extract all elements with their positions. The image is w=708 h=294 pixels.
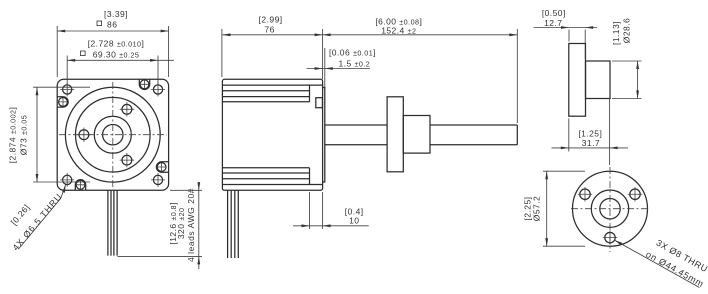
svg-text:86: 86 [107,20,117,30]
svg-text:Ø28.6: Ø28.6 [622,18,632,43]
svg-text:Ø57.2: Ø57.2 [532,196,542,221]
svg-text:69.30 ±0.25: 69.30 ±0.25 [93,50,140,60]
svg-text:[2.728 ±0.010]: [2.728 ±0.010] [88,39,145,49]
svg-text:Ø73 ±0.05: Ø73 ±0.05 [19,115,29,155]
svg-text:320 ±20: 320 ±20 [176,207,186,239]
svg-text:[0.06 ±0.01]: [0.06 ±0.01] [329,48,376,58]
svg-text:76: 76 [264,25,274,35]
svg-text:1.5 ±0.2: 1.5 ±0.2 [339,59,371,69]
svg-text:[1.13]: [1.13] [611,21,621,45]
svg-text:[3.39]: [3.39] [104,9,128,19]
svg-text:[2.99]: [2.99] [259,15,283,25]
svg-text:[0.50]: [0.50] [542,8,566,18]
svg-text:12.7: 12.7 [544,18,562,28]
svg-text:31.7: 31.7 [582,138,600,148]
svg-text:10: 10 [349,215,359,225]
svg-text:152.4 ±2: 152.4 ±2 [381,26,416,36]
svg-text:4 leads AWG 20#: 4 leads AWG 20# [186,188,196,262]
svg-text:[2.874 ±0.002]: [2.874 ±0.002] [7,107,17,164]
svg-text:[1.25]: [1.25] [578,129,602,139]
